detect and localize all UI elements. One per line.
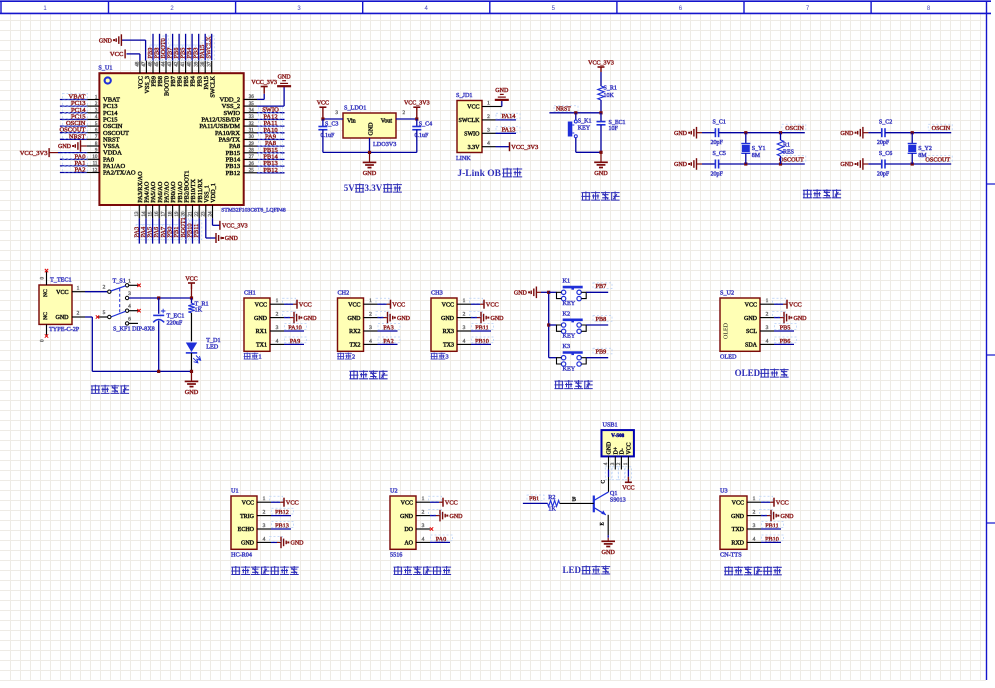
svg-text:S_EC1: S_EC1 bbox=[609, 120, 626, 126]
svg-text:34: 34 bbox=[249, 109, 255, 114]
svg-text:15: 15 bbox=[148, 211, 153, 217]
svg-text:4: 4 bbox=[369, 338, 372, 344]
svg-text:PA10: PA10 bbox=[288, 325, 302, 332]
svg-text:SWCLK: SWCLK bbox=[206, 36, 213, 58]
svg-text:3: 3 bbox=[128, 291, 131, 297]
svg-text:KEY: KEY bbox=[563, 300, 576, 307]
svg-text:VCC: VCC bbox=[467, 105, 479, 111]
svg-text:RX3: RX3 bbox=[443, 329, 454, 335]
svg-text:VCC: VCC bbox=[442, 302, 454, 308]
svg-text:S_C5: S_C5 bbox=[713, 151, 726, 157]
svg-text:VCC: VCC bbox=[627, 442, 633, 454]
svg-text:6: 6 bbox=[128, 316, 131, 322]
svg-text:VCC: VCC bbox=[299, 301, 312, 308]
svg-text:GND: GND bbox=[601, 549, 615, 556]
svg-text:S_U1: S_U1 bbox=[98, 65, 112, 72]
svg-text:K1: K1 bbox=[563, 278, 571, 285]
svg-text:PB5: PB5 bbox=[780, 325, 791, 332]
svg-text:5V: 5V bbox=[344, 183, 356, 193]
svg-text:43: 43 bbox=[168, 61, 173, 67]
svg-text:3: 3 bbox=[369, 325, 372, 331]
svg-text:VCC: VCC bbox=[486, 301, 499, 308]
svg-text:J-Link OB: J-Link OB bbox=[457, 169, 501, 179]
svg-text:8M: 8M bbox=[918, 153, 927, 159]
svg-text:GND: GND bbox=[840, 131, 854, 137]
svg-text:GND: GND bbox=[99, 38, 113, 44]
svg-text:12: 12 bbox=[92, 168, 98, 173]
svg-text:1: 1 bbox=[623, 462, 629, 465]
svg-text:2: 2 bbox=[463, 312, 466, 318]
svg-text:VDD_1: VDD_1 bbox=[210, 183, 217, 203]
svg-text:42: 42 bbox=[175, 61, 180, 67]
svg-text:45: 45 bbox=[155, 61, 160, 67]
svg-text:40: 40 bbox=[188, 61, 193, 67]
svg-text:VCC: VCC bbox=[401, 500, 413, 506]
svg-text:VCC: VCC bbox=[242, 500, 254, 506]
svg-text:C: C bbox=[601, 480, 607, 484]
svg-text:VCC: VCC bbox=[732, 500, 744, 506]
svg-text:OLED: OLED bbox=[724, 322, 730, 339]
svg-text:GND: GND bbox=[731, 514, 745, 520]
svg-text:GND: GND bbox=[400, 514, 414, 520]
svg-text:3: 3 bbox=[610, 462, 616, 465]
svg-text:2: 2 bbox=[616, 462, 622, 465]
svg-text:0: 0 bbox=[40, 339, 46, 342]
svg-text:VCC: VCC bbox=[445, 499, 458, 506]
svg-text:GND: GND bbox=[278, 75, 292, 81]
svg-text:LED: LED bbox=[563, 565, 582, 575]
svg-text:TX1: TX1 bbox=[256, 343, 267, 349]
svg-text:PB12: PB12 bbox=[263, 167, 277, 174]
svg-text:PB1: PB1 bbox=[529, 496, 539, 502]
svg-text:18: 18 bbox=[168, 211, 173, 217]
svg-text:T_S1: T_S1 bbox=[113, 278, 126, 285]
svg-text:4: 4 bbox=[263, 536, 266, 542]
svg-text:TYPE-C-2P: TYPE-C-2P bbox=[49, 326, 80, 333]
svg-text:GND: GND bbox=[185, 389, 199, 396]
svg-text:38: 38 bbox=[201, 61, 206, 67]
svg-text:1: 1 bbox=[263, 496, 266, 502]
svg-text:GND: GND bbox=[304, 316, 318, 322]
svg-text:VCC: VCC bbox=[622, 485, 634, 491]
svg-text:3: 3 bbox=[335, 110, 338, 116]
svg-text:CH1: CH1 bbox=[244, 290, 256, 297]
svg-text:32: 32 bbox=[249, 122, 255, 127]
svg-text:3: 3 bbox=[463, 325, 466, 331]
svg-text:GND: GND bbox=[514, 291, 528, 297]
svg-text:GND: GND bbox=[58, 144, 72, 150]
svg-text:PB7: PB7 bbox=[596, 283, 607, 290]
svg-text:220uF: 220uF bbox=[167, 320, 183, 327]
svg-text:S_KF1 DIP-8X8: S_KF1 DIP-8X8 bbox=[113, 326, 155, 333]
svg-text:PA9: PA9 bbox=[290, 338, 300, 345]
svg-text:R1: R1 bbox=[783, 143, 790, 149]
svg-text:0: 0 bbox=[40, 277, 46, 280]
svg-text:OSCOUT: OSCOUT bbox=[779, 156, 804, 163]
svg-text:K3: K3 bbox=[563, 343, 571, 350]
svg-text:PA2: PA2 bbox=[75, 167, 86, 174]
svg-text:20pF: 20pF bbox=[711, 172, 724, 178]
svg-text:LED: LED bbox=[206, 344, 219, 351]
svg-text:2: 2 bbox=[77, 311, 80, 317]
svg-text:CN-TTS: CN-TTS bbox=[720, 551, 742, 558]
svg-text:3: 3 bbox=[422, 523, 425, 529]
svg-text:S_C2: S_C2 bbox=[879, 120, 892, 126]
svg-text:STM32F103C8T6_LQFP48: STM32F103C8T6_LQFP48 bbox=[221, 208, 286, 214]
svg-text:47: 47 bbox=[142, 61, 147, 67]
svg-text:GND: GND bbox=[241, 541, 255, 547]
svg-text:VCC: VCC bbox=[255, 302, 267, 308]
svg-text:39: 39 bbox=[194, 61, 199, 67]
svg-text:25: 25 bbox=[249, 169, 255, 174]
svg-text:SCL: SCL bbox=[746, 329, 757, 335]
svg-text:4: 4 bbox=[463, 338, 466, 344]
svg-text:VCC_3V3: VCC_3V3 bbox=[404, 101, 430, 107]
svg-text:AO: AO bbox=[404, 541, 413, 547]
svg-text:GND: GND bbox=[794, 316, 808, 322]
svg-text:S_R1: S_R1 bbox=[604, 86, 617, 92]
svg-text:PB11: PB11 bbox=[475, 325, 489, 332]
svg-text:48: 48 bbox=[136, 61, 141, 67]
svg-text:1: 1 bbox=[369, 298, 372, 304]
svg-text:16: 16 bbox=[155, 211, 160, 217]
svg-text:S_U2: S_U2 bbox=[720, 290, 734, 297]
svg-text:VCC: VCC bbox=[789, 301, 802, 308]
svg-text:10: 10 bbox=[92, 155, 98, 160]
svg-text:36: 36 bbox=[249, 95, 255, 100]
svg-text:OSCOUT: OSCOUT bbox=[925, 156, 950, 163]
svg-text:RX1: RX1 bbox=[256, 329, 267, 335]
svg-text:SWCLK: SWCLK bbox=[209, 75, 216, 97]
svg-text:VCC_3V3: VCC_3V3 bbox=[511, 144, 538, 151]
svg-text:23: 23 bbox=[202, 211, 207, 217]
svg-text:LDO3V3: LDO3V3 bbox=[373, 141, 396, 148]
svg-text:SDA: SDA bbox=[745, 343, 758, 349]
svg-text:KEY: KEY bbox=[563, 365, 576, 372]
svg-text:1: 1 bbox=[463, 298, 466, 304]
svg-text:PB12: PB12 bbox=[275, 509, 289, 516]
svg-text:3.3V: 3.3V bbox=[365, 183, 383, 193]
svg-text:VCC: VCC bbox=[348, 302, 360, 308]
svg-text:26: 26 bbox=[249, 162, 255, 167]
svg-text:33: 33 bbox=[249, 115, 255, 120]
svg-text:1K: 1K bbox=[548, 506, 556, 513]
svg-text:S_C4: S_C4 bbox=[419, 122, 432, 128]
svg-text:T_EC1: T_EC1 bbox=[167, 313, 185, 320]
svg-text:VCC: VCC bbox=[392, 301, 405, 308]
svg-text:GND: GND bbox=[225, 236, 239, 242]
svg-text:1K: 1K bbox=[195, 307, 203, 314]
svg-text:LINK: LINK bbox=[456, 155, 471, 162]
svg-text:GND: GND bbox=[674, 162, 688, 168]
svg-text:PA3: PA3 bbox=[383, 325, 393, 332]
svg-text:USB1: USB1 bbox=[603, 422, 618, 429]
svg-text:Vout: Vout bbox=[381, 119, 393, 125]
svg-text:10K: 10K bbox=[604, 93, 615, 99]
svg-text:S_C1: S_C1 bbox=[713, 120, 726, 126]
svg-text:29: 29 bbox=[249, 142, 255, 147]
svg-text:44: 44 bbox=[162, 61, 167, 67]
svg-text:VCC_3V3: VCC_3V3 bbox=[251, 80, 277, 86]
svg-text:20pF: 20pF bbox=[877, 140, 890, 146]
svg-text:VCC: VCC bbox=[745, 302, 757, 308]
svg-text:SWCLK: SWCLK bbox=[459, 118, 481, 124]
svg-text:K2: K2 bbox=[563, 310, 571, 317]
svg-text:3: 3 bbox=[263, 523, 266, 529]
svg-text:TXD: TXD bbox=[732, 527, 745, 533]
svg-text:PB9: PB9 bbox=[596, 349, 607, 356]
svg-text:3: 3 bbox=[446, 354, 449, 361]
svg-text:U2: U2 bbox=[390, 488, 398, 495]
svg-text:PB13: PB13 bbox=[275, 523, 289, 530]
svg-text:GND: GND bbox=[441, 316, 455, 322]
svg-text:PA0: PA0 bbox=[436, 536, 446, 543]
svg-text:PB6: PB6 bbox=[780, 338, 791, 345]
svg-text:KEY: KEY bbox=[578, 125, 591, 131]
svg-text:2: 2 bbox=[487, 114, 490, 120]
svg-text:OSCIN: OSCIN bbox=[932, 125, 951, 132]
svg-text:PB10: PB10 bbox=[765, 536, 779, 543]
svg-text:GND: GND bbox=[254, 316, 268, 322]
svg-text:24: 24 bbox=[208, 211, 213, 217]
svg-text:S9013: S9013 bbox=[610, 497, 626, 504]
svg-text:GND: GND bbox=[674, 131, 688, 137]
svg-text:1: 1 bbox=[128, 278, 131, 284]
svg-text:3: 3 bbox=[276, 325, 279, 331]
svg-text:S_JD1: S_JD1 bbox=[456, 92, 473, 99]
svg-text:KEY: KEY bbox=[563, 333, 576, 340]
svg-text:GND: GND bbox=[594, 170, 608, 177]
svg-text:T_TEC1: T_TEC1 bbox=[50, 277, 72, 284]
svg-text:S_C6: S_C6 bbox=[879, 151, 892, 157]
svg-text:PA2: PA2 bbox=[383, 338, 393, 345]
svg-text:37: 37 bbox=[207, 61, 212, 67]
svg-text:17: 17 bbox=[162, 211, 167, 217]
svg-text:OLED: OLED bbox=[735, 368, 761, 378]
svg-text:1: 1 bbox=[422, 496, 425, 502]
svg-text:NC: NC bbox=[43, 312, 49, 320]
svg-text:10F: 10F bbox=[609, 126, 619, 132]
svg-text:4: 4 bbox=[276, 338, 279, 344]
svg-text:ECHO: ECHO bbox=[238, 527, 255, 533]
svg-text:VCC: VCC bbox=[110, 51, 123, 58]
svg-text:DO: DO bbox=[404, 527, 413, 533]
svg-text:GND: GND bbox=[348, 316, 362, 322]
svg-text:4: 4 bbox=[128, 304, 131, 310]
svg-text:GND: GND bbox=[450, 514, 464, 520]
svg-text:S_Y1: S_Y1 bbox=[752, 146, 766, 152]
svg-text:1: 1 bbox=[259, 354, 262, 361]
svg-text:PB11: PB11 bbox=[765, 523, 779, 530]
svg-text:1: 1 bbox=[766, 298, 769, 304]
svg-text:R2: R2 bbox=[548, 494, 555, 501]
svg-text:OLED: OLED bbox=[720, 353, 737, 360]
svg-text:VCC: VCC bbox=[185, 277, 197, 283]
svg-text:B: B bbox=[572, 497, 576, 503]
svg-text:GND: GND bbox=[607, 442, 613, 455]
svg-text:4: 4 bbox=[422, 536, 425, 542]
svg-text:35: 35 bbox=[249, 102, 255, 107]
svg-text:2: 2 bbox=[263, 510, 266, 516]
svg-text:OSCIN: OSCIN bbox=[785, 125, 804, 132]
svg-text:VCC: VCC bbox=[776, 499, 789, 506]
svg-text:2: 2 bbox=[766, 312, 769, 318]
svg-text:VCC: VCC bbox=[317, 101, 329, 107]
svg-text:GND: GND bbox=[840, 162, 854, 168]
svg-text:14: 14 bbox=[142, 211, 147, 217]
svg-text:NC: NC bbox=[43, 289, 49, 297]
svg-text:19: 19 bbox=[175, 211, 180, 217]
svg-text:PB10: PB10 bbox=[475, 338, 489, 345]
svg-text:GND: GND bbox=[491, 316, 505, 322]
svg-text:2: 2 bbox=[753, 510, 756, 516]
svg-text:VCC_3V3: VCC_3V3 bbox=[20, 150, 48, 157]
svg-text:2: 2 bbox=[276, 312, 279, 318]
svg-text:41: 41 bbox=[181, 61, 186, 67]
svg-text:S_C3: S_C3 bbox=[325, 122, 338, 128]
svg-text:S_LDO1: S_LDO1 bbox=[344, 105, 366, 112]
svg-text:HC-R04: HC-R04 bbox=[231, 551, 252, 558]
svg-text:D-: D- bbox=[620, 448, 626, 454]
svg-text:1: 1 bbox=[276, 298, 279, 304]
svg-text:GND: GND bbox=[397, 316, 411, 322]
svg-text:SWIO: SWIO bbox=[464, 132, 480, 138]
svg-text:46: 46 bbox=[149, 61, 154, 67]
svg-text:PB11: PB11 bbox=[193, 224, 200, 238]
svg-text:NRST: NRST bbox=[69, 133, 86, 140]
svg-text:VCC_3V3: VCC_3V3 bbox=[222, 224, 248, 230]
svg-text:4: 4 bbox=[766, 338, 769, 344]
svg-text:GND: GND bbox=[363, 170, 377, 177]
svg-text:1: 1 bbox=[753, 496, 756, 502]
svg-text:RES: RES bbox=[783, 150, 794, 156]
svg-text:13: 13 bbox=[135, 211, 140, 217]
svg-text:GND: GND bbox=[495, 88, 509, 94]
svg-text:3: 3 bbox=[766, 325, 769, 331]
svg-text:TX3: TX3 bbox=[443, 343, 454, 349]
svg-text:GND: GND bbox=[369, 122, 375, 136]
svg-text:Vin: Vin bbox=[347, 119, 356, 125]
svg-text:GND: GND bbox=[56, 315, 70, 321]
svg-text:4: 4 bbox=[603, 462, 609, 465]
svg-text:4: 4 bbox=[753, 536, 756, 542]
svg-text:22: 22 bbox=[195, 211, 200, 217]
svg-text:27: 27 bbox=[249, 155, 255, 160]
svg-text:5516: 5516 bbox=[390, 551, 402, 558]
svg-text:2: 2 bbox=[422, 510, 425, 516]
svg-text:2: 2 bbox=[352, 354, 355, 361]
svg-text:28: 28 bbox=[249, 149, 255, 154]
svg-text:4: 4 bbox=[487, 141, 490, 147]
svg-text:PB8: PB8 bbox=[596, 316, 607, 323]
svg-text:3: 3 bbox=[487, 127, 490, 133]
svg-text:GND: GND bbox=[781, 514, 795, 520]
svg-text:RX2: RX2 bbox=[349, 329, 360, 335]
svg-text:VCC: VCC bbox=[286, 499, 299, 506]
svg-text:S_Y2: S_Y2 bbox=[918, 146, 932, 152]
svg-text:31: 31 bbox=[249, 129, 255, 134]
svg-text:S_K1: S_K1 bbox=[578, 119, 592, 125]
svg-text:1: 1 bbox=[487, 101, 490, 107]
svg-text:RXD: RXD bbox=[731, 541, 744, 547]
svg-text:2: 2 bbox=[403, 110, 406, 116]
svg-text:2: 2 bbox=[103, 285, 106, 291]
svg-text:5: 5 bbox=[103, 310, 106, 316]
svg-text:VCC_3V3: VCC_3V3 bbox=[588, 61, 614, 67]
svg-text:TX2: TX2 bbox=[350, 343, 361, 349]
svg-text:PA2/TX/AO: PA2/TX/AO bbox=[103, 170, 136, 177]
svg-text:2: 2 bbox=[369, 312, 372, 318]
svg-text:CH2: CH2 bbox=[338, 290, 350, 297]
svg-text:20pF: 20pF bbox=[877, 172, 890, 178]
svg-text:PB12: PB12 bbox=[226, 170, 240, 177]
svg-text:3.3V: 3.3V bbox=[468, 145, 481, 151]
svg-text:TRIG: TRIG bbox=[240, 514, 255, 520]
svg-text:V-S08: V-S08 bbox=[611, 433, 625, 439]
svg-text:20pF: 20pF bbox=[711, 140, 724, 146]
svg-text:D+: D+ bbox=[614, 447, 620, 454]
svg-text:GND: GND bbox=[744, 316, 758, 322]
svg-text:CH3: CH3 bbox=[431, 290, 443, 297]
svg-text:U3: U3 bbox=[720, 488, 728, 495]
svg-text:VCC: VCC bbox=[56, 290, 68, 296]
svg-text:30: 30 bbox=[249, 135, 255, 140]
svg-text:1: 1 bbox=[77, 285, 80, 291]
svg-text:U1: U1 bbox=[231, 488, 239, 495]
svg-text:GND: GND bbox=[291, 541, 305, 547]
svg-text:3: 3 bbox=[753, 523, 756, 529]
svg-text:21: 21 bbox=[188, 211, 193, 217]
svg-text:8M: 8M bbox=[752, 153, 761, 159]
svg-text:11: 11 bbox=[93, 162, 98, 167]
